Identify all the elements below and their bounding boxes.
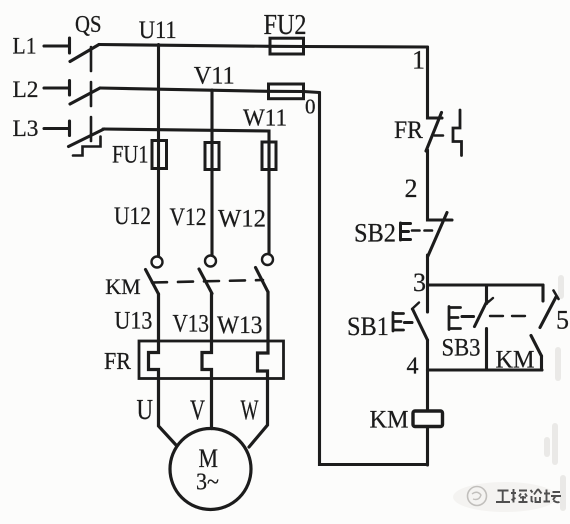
svg-text:KM: KM xyxy=(370,407,409,434)
svg-text:5: 5 xyxy=(556,306,569,335)
svg-text:SB2: SB2 xyxy=(354,219,396,248)
svg-text:V: V xyxy=(190,396,205,427)
svg-text:V13: V13 xyxy=(173,311,210,338)
svg-text:QS: QS xyxy=(75,12,102,38)
svg-text:V12: V12 xyxy=(170,204,207,231)
svg-text:FU2: FU2 xyxy=(264,10,307,41)
svg-text:V11: V11 xyxy=(194,63,235,90)
svg-text:0: 0 xyxy=(305,95,316,119)
svg-text:U: U xyxy=(137,395,154,426)
svg-text:SB3: SB3 xyxy=(442,335,481,362)
svg-text:FU1: FU1 xyxy=(112,142,149,169)
svg-text:3~: 3~ xyxy=(196,470,219,496)
svg-text:L1: L1 xyxy=(13,34,37,59)
svg-text:4: 4 xyxy=(407,354,419,380)
svg-text:U12: U12 xyxy=(114,203,151,230)
svg-text:W11: W11 xyxy=(243,105,287,131)
svg-text:KM: KM xyxy=(496,347,535,374)
svg-text:1: 1 xyxy=(412,46,425,75)
svg-text:U11: U11 xyxy=(139,17,177,44)
svg-text:FR: FR xyxy=(104,349,131,375)
svg-text:L2: L2 xyxy=(13,77,39,102)
svg-text:KM: KM xyxy=(105,274,140,299)
svg-text:W12: W12 xyxy=(218,206,266,233)
svg-text:W: W xyxy=(241,396,259,427)
svg-text:SB1: SB1 xyxy=(347,312,389,341)
svg-text:3: 3 xyxy=(413,268,426,297)
svg-text:W13: W13 xyxy=(217,312,263,339)
svg-text:L3: L3 xyxy=(13,116,39,141)
svg-text:FR: FR xyxy=(394,117,423,144)
svg-text:2: 2 xyxy=(405,174,418,203)
svg-text:U13: U13 xyxy=(114,308,152,335)
